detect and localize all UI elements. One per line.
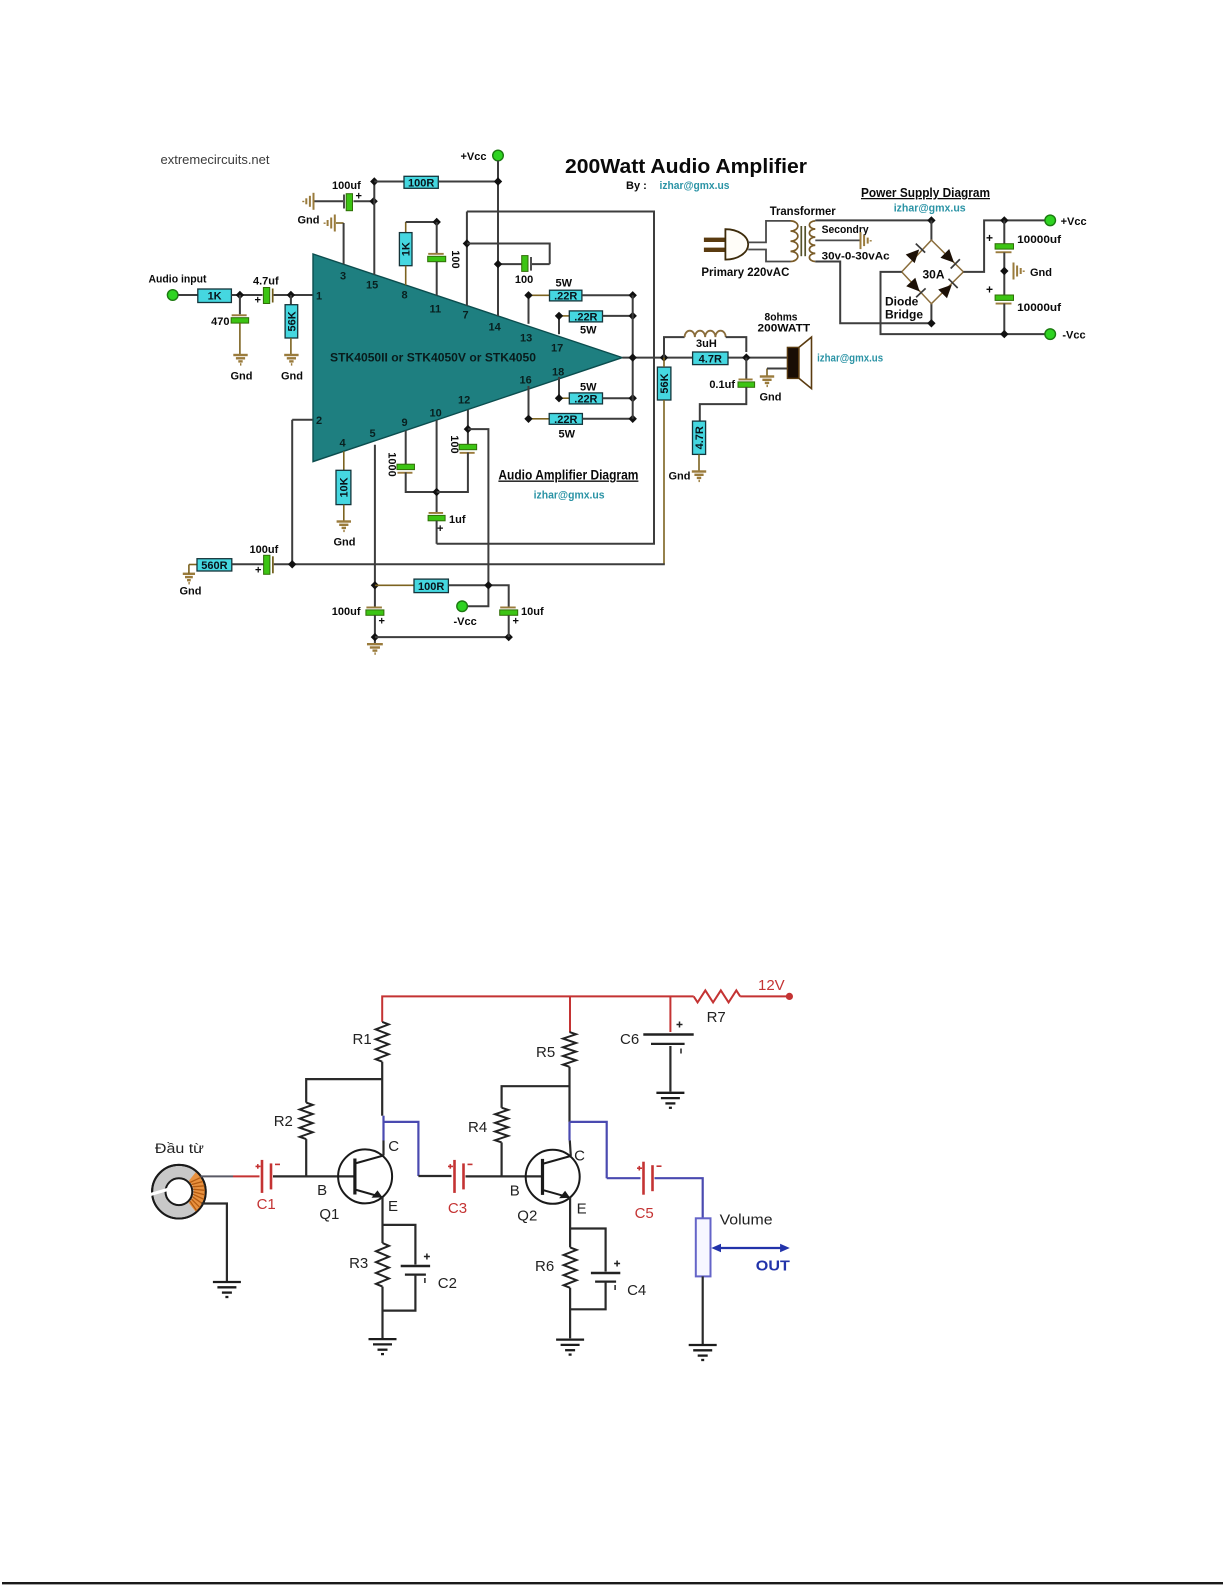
svg-text:C4: C4 [627,1282,646,1299]
svg-text:14: 14 [489,322,502,334]
wire R4 to base [501,1142,503,1176]
wire collector Q2 blue [568,1122,570,1141]
svg-text:.22R: .22R [554,414,577,426]
svg-text:200WATT: 200WATT [758,323,811,335]
capacitor 100uf bottom [366,607,384,616]
wire head bottom [202,1204,227,1282]
wire pin16 stub [528,386,530,419]
svg-text:200Watt Audio Amplifier: 200Watt Audio Amplifier [565,156,807,178]
wire 100R2 right lead [448,585,508,606]
wire 100uf to junction [354,200,375,202]
svg-text:1K: 1K [208,291,222,303]
wire sec center tap [815,239,859,241]
resistor 10K [336,470,351,504]
wire 470 to gnd [239,323,241,354]
resistor R2 [300,1103,313,1140]
transformer secondary coil [809,221,815,262]
svg-text:100R: 100R [408,177,434,189]
svg-text:Diode: Diode [885,295,919,309]
svg-text:100: 100 [448,435,460,453]
svg-text:C: C [388,1138,399,1155]
wire 1K bottom pin8 [405,266,407,286]
wire 1K top lead [405,222,407,233]
+Vcc terminal dot top [493,150,504,161]
wire 100R left lead [374,181,404,183]
svg-text:-Vcc: -Vcc [454,616,477,628]
svg-text:Q1: Q1 [319,1206,339,1223]
wire pin5 down [374,445,376,607]
node pin14 junction at cap100B [494,260,502,268]
wire C2 bracket [383,1225,416,1265]
node 1K-100 junction [433,218,441,226]
wire R7 to 12V [740,995,786,997]
capacitor 470 (input) [231,314,249,323]
svg-text:By :: By : [626,180,647,192]
resistor .22R #3 left node [555,394,563,402]
svg-text:56K: 56K [659,373,671,393]
ground R6 [556,1340,584,1355]
transistor Q1 [338,1149,392,1203]
svg-text:470: 470 [211,316,229,328]
capacitor 1uf [428,512,445,521]
wire 1uf bottom [436,521,438,544]
svg-text:Gnd: Gnd [760,392,782,404]
svg-text:100uf: 100uf [332,180,361,192]
svg-text:18: 18 [552,367,564,379]
wire C6 to gnd [669,1046,671,1092]
wire blue branch Q1 [384,1122,419,1176]
svg-text:17: 17 [551,343,563,355]
wire pin17 stub [558,316,560,334]
svg-text:izhar@gmx.us: izhar@gmx.us [894,203,966,215]
resistor .22R #1 left node [524,291,532,299]
wire C2 bottom [383,1275,416,1311]
ground volume [689,1345,717,1360]
svg-text:Bridge: Bridge [885,308,923,322]
resistor 100R top [404,176,438,189]
svg-text:15: 15 [366,280,378,292]
svg-text:izhar@gmx.us: izhar@gmx.us [660,180,730,192]
ground under 56K [284,355,298,364]
ground main bottom [367,644,383,653]
ground tape head [213,1282,241,1297]
svg-text:C1: C1 [257,1196,276,1213]
svg-text:30A: 30A [922,268,944,282]
svg-text:1K: 1K [401,242,413,256]
wire collector Q1 blue [382,1116,384,1141]
svg-text:7: 7 [463,310,469,322]
wire pin12 branch [467,429,488,606]
svg-text:C: C [574,1148,585,1165]
ground C6 [656,1093,684,1108]
wire R2 branch [306,1079,382,1103]
12V terminal dot [786,993,793,1000]
wire pin2 [292,419,312,421]
resistor R7 [694,990,741,1002]
wire head to C1 red [233,1175,260,1177]
svg-text:100: 100 [449,250,461,268]
speaker 8ohm [787,337,811,389]
svg-text:1: 1 [316,291,322,303]
svg-text:Power Supply Diagram: Power Supply Diagram [861,186,990,200]
svg-text:-Vcc: -Vcc [1062,330,1085,342]
wire coil branch up [664,337,685,358]
node bridge bottom junction [927,319,935,327]
wire pin9 lead [405,431,407,465]
capacitor 0.1uf zobel [738,379,755,388]
ground center tap [861,232,871,249]
-Vcc dot [457,601,468,612]
wire R1 to collector [381,1062,383,1116]
wire R4 branch [502,1086,570,1108]
capacitor 10uf [500,607,518,616]
wire pin7 vertical [466,212,468,306]
wire bootstrap top [437,212,654,544]
svg-text:12V: 12V [758,977,785,994]
resistor .22R #1 right node [629,291,637,299]
resistor .22R #2 [569,311,602,323]
svg-text:izhar@gmx.us: izhar@gmx.us [817,353,883,365]
resistor .22R #3 [569,393,602,405]
capacitor C1 [256,1160,281,1193]
wire R3 to gnd [381,1287,383,1338]
wire vertical pin15 [373,182,375,275]
node output zobel junction [742,353,750,361]
resistor 4.7R vertical [693,421,707,454]
wire to C5 [607,1177,641,1179]
resistor .22R #2 right lead [603,315,633,317]
svg-text:B: B [510,1183,520,1200]
wire 100R2 left lead [375,584,414,586]
wire R5 to collector [568,1067,570,1122]
ground 560R [183,574,195,583]
node +Vcc rail junction [1000,216,1008,224]
svg-text:C3: C3 [448,1200,467,1217]
wire 560R to 100uf [232,563,264,565]
transformer primary coil [791,221,798,262]
svg-text:Gnd: Gnd [298,215,320,227]
+Vcc psu dot [1045,215,1056,226]
node 100R left junction [370,177,378,185]
svg-text:.22R: .22R [554,291,577,303]
svg-text:Gnd: Gnd [334,537,356,549]
diode D3 bottom-left [906,278,925,297]
wire pin3 vertical [343,223,345,264]
node 100R2 right junction [484,581,492,589]
capacitor 10000uf lower [995,295,1013,305]
node input junction A [236,291,244,299]
wire blue branch Q2 [570,1122,607,1178]
wire junction to 56K input [290,295,292,305]
wire collector Q1 black upper [382,1141,384,1156]
diode bridge outline [902,240,964,304]
resistor .22R #2 left lead [559,315,569,317]
node psu gnd junction [1000,267,1008,275]
resistor R1 [376,1022,389,1062]
wire +Vcc down pin14 [497,161,499,316]
audio input terminal dot [167,290,178,301]
svg-text:5W: 5W [556,278,573,290]
resistor 56K (input) [285,305,298,338]
svg-text:Gnd: Gnd [180,586,202,598]
svg-text:C2: C2 [438,1275,457,1292]
wire speaker minus [767,368,787,370]
svg-text:1000: 1000 [386,452,398,476]
svg-text:2: 2 [316,415,322,427]
svg-text:100uf: 100uf [250,544,279,556]
-Vcc psu dot [1045,329,1056,340]
wire pin13 stub [528,295,530,324]
svg-text:extremecircuits.net: extremecircuits.net [161,153,271,167]
resistor .22R #4 right lead [582,418,632,420]
node pin7 junction [463,239,471,247]
resistor .22R #1 left lead [529,294,550,296]
node 100R right junction [494,177,502,185]
wire bridge plus [963,220,1045,272]
resistor R4 [495,1108,508,1143]
wire 100R right lead [438,181,498,183]
svg-text:+: + [255,295,261,307]
diode D2 top-right [940,249,959,268]
wire 10K to gnd [343,505,345,521]
wire cap2 to -Vcc rail [1003,304,1005,335]
wire C3 to base Q2 [466,1175,543,1177]
capacitor 4.7uf (input) [263,288,272,304]
svg-text:E: E [577,1201,587,1218]
svg-text:Đầu từ: Đầu từ [155,1141,204,1156]
wire gnd to 100uf cap [315,200,344,202]
resistor R6 [564,1247,577,1287]
svg-text:Volume: Volume [720,1212,773,1229]
svg-text:R5: R5 [536,1044,555,1061]
svg-text:+: + [255,565,261,577]
wire to C3 [418,1175,451,1177]
capacitor C6 [643,1022,693,1054]
wire 4.7uf to pin1 [274,294,313,296]
resistor .22R #1 right lead [582,294,633,296]
wire secondary top [815,219,931,221]
wire pin11 upper [436,222,438,253]
svg-text:C6: C6 [620,1031,639,1048]
wire pin4 lead [343,451,345,470]
svg-text:5: 5 [370,428,376,440]
wire pin11 lower [436,262,438,296]
svg-text:4: 4 [340,438,347,450]
wire R2 to base [305,1139,307,1176]
svg-text:5W: 5W [559,429,576,441]
wire bridge minus [881,272,1046,334]
wiper arrow [711,1244,790,1253]
resistor 560R [197,559,232,572]
capacitor 1000 [397,464,415,473]
capacitor 10000uf upper [995,244,1013,254]
wire 100uf bottom to gnd [374,615,376,644]
resistor .22R #4 left node [524,415,532,423]
svg-text:+Vcc: +Vcc [1061,216,1087,228]
ac plug prongs [704,238,726,252]
capacitor 100 bootstrap [522,256,531,272]
ground R3 [369,1339,397,1354]
resistor .22R #2 left node [555,312,563,320]
svg-text:10uf: 10uf [521,606,544,618]
capacitor C3 [448,1160,473,1193]
wire pin12 down [467,410,469,445]
svg-text:Gnd: Gnd [669,471,691,483]
svg-text:12: 12 [458,395,470,407]
ground left of 100uf top [303,193,313,210]
svg-text:0.1uf: 0.1uf [709,379,735,391]
svg-text:10000uf: 10000uf [1017,302,1061,314]
wire cap1 lead [1003,220,1005,243]
resistor 4.7R horizontal [693,352,728,365]
capacitor 100 on pin11 [428,253,446,262]
ground under 10K [337,522,351,531]
capacitor C5 [637,1162,662,1195]
resistor .22R #1 [550,290,582,302]
svg-text:OUT: OUT [756,1258,790,1275]
ground small pin3 [325,215,335,232]
wire 1K node horizontal [406,221,437,223]
wire plug upper [748,221,790,243]
wire 560R left lead [189,564,197,566]
wire 10uf to bus [508,615,510,637]
wire C4 bracket [570,1229,606,1272]
node pin1 junction [287,291,295,299]
wire zobel to 4.7R [700,387,747,421]
capacitor C4 [591,1261,620,1291]
resistor .22R #4 right node [629,415,637,423]
wire secondary bottom [815,262,931,324]
svg-text:Transformer: Transformer [770,206,837,218]
svg-text:E: E [388,1198,398,1215]
svg-text:8: 8 [402,290,408,302]
svg-text:Gnd: Gnd [281,371,303,383]
inductor 3uH coil [685,331,726,337]
resistor 56K output [657,367,671,400]
svg-text:C5: C5 [635,1205,654,1222]
node pin12 junction [464,425,472,433]
tape head toroid ring [151,1165,206,1219]
svg-text:10: 10 [430,408,442,420]
ground psu [1014,263,1024,280]
node output tip [629,353,637,361]
wire pin10 down [436,420,438,512]
wire red R5 [569,996,571,1032]
svg-text:Q2: Q2 [517,1208,537,1225]
wire C4 bottom [570,1282,606,1310]
wire output line [622,357,787,359]
svg-text:+: + [437,523,443,535]
svg-text:R3: R3 [349,1255,368,1272]
resistor .22R #4 [549,414,582,426]
svg-text:Secondry: Secondry [822,224,870,236]
resistor .22R #3 left lead [559,397,569,399]
node -Vcc rail junction [1000,330,1008,338]
svg-text:R6: R6 [535,1258,554,1275]
svg-text:100: 100 [515,274,533,286]
wire between caps [1003,253,1005,296]
wire gnd2 to pin3 wire [336,222,344,224]
wire 56K to gnd [290,338,292,355]
svg-text:B: B [317,1182,327,1199]
diode D1 top-left [906,244,925,263]
wire junction to 470 cap [239,295,241,314]
svg-text:R4: R4 [468,1119,487,1136]
wire emitter Q2 down [569,1198,571,1248]
svg-text:100R: 100R [418,581,444,593]
wire plug lower [748,250,790,262]
wire pin18 stub [558,377,560,398]
node 100R2 left junction [371,581,379,589]
wire emitter Q1 down [381,1197,383,1243]
resistor .22R #2 right node [629,312,637,320]
svg-text:.22R: .22R [574,311,597,323]
wire 56K output down [663,358,665,368]
svg-text:R1: R1 [353,1031,372,1048]
wire feedback line [274,563,665,565]
node secondary top junction [927,216,935,224]
wire pin2 down [291,420,293,565]
resistor 100R bottom [414,579,448,593]
svg-text:.22R: .22R [574,393,597,405]
transistor Q2 [526,1150,580,1204]
ground speaker [760,377,774,386]
svg-text:R2: R2 [274,1113,293,1130]
capacitor 100uf feedback [264,555,273,574]
node gnd junction bottom [371,633,379,641]
wire bridge top lead [930,220,932,240]
svg-text:1uf: 1uf [449,514,466,526]
wire collector Q2 black [570,1141,571,1157]
ground under 470 [233,355,247,364]
wire red rail [382,996,694,1022]
svg-text:R7: R7 [707,1009,726,1026]
svg-text:+: + [379,616,385,628]
node 100uf junction [369,197,377,205]
wire 1000 down [406,472,437,492]
node 10uf bottom junction [505,633,513,641]
node feedback pin2 junction [288,560,296,568]
wire head to C1 gray [201,1175,234,1177]
wire 56K to feedback line [663,400,665,564]
node output 56K junction [660,353,668,361]
svg-text:Gnd: Gnd [231,371,253,383]
svg-text:izhar@gmx.us: izhar@gmx.us [534,490,605,502]
svg-text:Audio Amplifier Diagram: Audio Amplifier Diagram [498,468,638,483]
wire C5 to volume [655,1178,703,1218]
wire 560R gnd lead [188,565,190,574]
svg-text:4.7R: 4.7R [699,353,722,365]
svg-text:11: 11 [430,304,442,316]
wire red rail to R7 [693,995,695,997]
svg-text:10K: 10K [338,477,350,497]
wire input to R-1K [178,294,198,296]
svg-text:+: + [986,231,993,245]
svg-text:13: 13 [520,333,532,345]
capacitor 100 pin12 [459,444,477,454]
wire R6 to gnd [569,1288,571,1339]
wire volume to gnd [702,1276,704,1344]
resistor .22R #3 right node [629,394,637,402]
diode D4 bottom-right [938,279,957,298]
svg-text:5W: 5W [580,382,597,394]
wire 4.7R to gnd [698,454,700,471]
svg-text:3uH: 3uH [696,338,717,350]
svg-text:16: 16 [520,375,532,387]
wire pin7 to cap100B [467,244,550,265]
wire red rail right [669,996,671,1032]
resistor .22R #4 left lead [529,418,550,420]
